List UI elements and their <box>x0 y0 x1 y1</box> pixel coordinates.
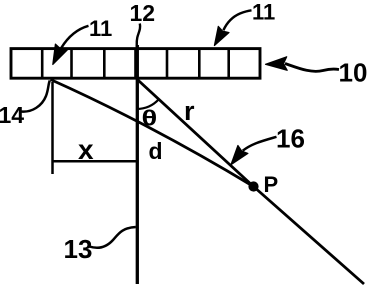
dimension tick left <box>51 82 54 174</box>
svg-text:10: 10 <box>339 58 367 88</box>
arrowhead 16 <box>231 146 248 165</box>
dimension line x <box>52 160 137 163</box>
leader for label 11 right <box>223 10 251 30</box>
source point leader 14 <box>22 81 50 112</box>
center axis line 12/13 (vertical) <box>136 45 139 284</box>
detector array 10 (outline) <box>11 49 260 79</box>
ray 16 from source 14 to point P <box>51 80 254 187</box>
cell divider 7 <box>227 49 230 79</box>
svg-text:16: 16 <box>276 124 305 154</box>
svg-text:12: 12 <box>130 0 156 26</box>
leader from label 12 <box>137 24 140 48</box>
cell divider 6 <box>198 49 201 79</box>
leader for label 13 <box>90 227 136 248</box>
radius line r from origin through P extended <box>137 79 364 284</box>
cell divider 5 <box>166 49 169 79</box>
svg-text:d: d <box>149 138 163 164</box>
cell divider 3 <box>103 49 106 79</box>
point P dot <box>249 182 258 191</box>
leader for label 11 left <box>61 26 88 48</box>
svg-text:13: 13 <box>64 234 93 264</box>
svg-text:P: P <box>264 172 279 197</box>
cell divider 4 <box>134 49 137 79</box>
svg-text:θ: θ <box>142 107 158 131</box>
svg-text:11: 11 <box>252 0 275 25</box>
angle arc theta <box>137 99 159 109</box>
svg-text:14: 14 <box>0 102 24 128</box>
svg-text:r: r <box>184 96 195 126</box>
svg-text:11: 11 <box>89 16 112 41</box>
cell divider 1 <box>41 49 44 79</box>
svg-text:x: x <box>78 134 94 165</box>
arrowhead 11 right <box>214 26 229 45</box>
arrowhead 11 left <box>53 44 68 64</box>
leader for label 16 <box>243 137 277 151</box>
leader for label 10 <box>285 64 339 72</box>
arrowhead 10 <box>266 57 288 71</box>
cell divider 2 <box>70 49 73 79</box>
